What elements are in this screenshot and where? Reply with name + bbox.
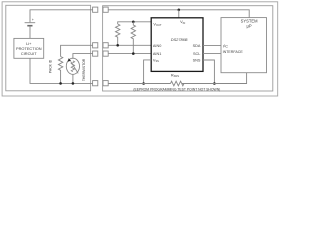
resistor RSNS (171, 81, 184, 86)
wire cell to protection circuit (29, 26, 31, 39)
wire AIN0 (108, 44, 151, 46)
wire SNS (203, 60, 214, 84)
node R2 top (132, 21, 135, 24)
wire PACK+ top rail pack side (30, 10, 93, 22)
node VSS / ground rail (142, 82, 145, 85)
svg-text:SDA: SDA (193, 44, 201, 48)
wire TH terminal to pack ID resistor (61, 45, 93, 56)
node SNS / ground rail (213, 82, 216, 85)
ground rail host side right segment (182, 73, 247, 84)
svg-text:AIN0: AIN0 (153, 44, 161, 48)
svg-text:(EEPROM PROGRAMMING TEST POINT: (EEPROM PROGRAMMING TEST POINT NOT SHOWN… (133, 87, 220, 91)
svg-text:SNS: SNS (193, 59, 201, 63)
pack connector terminal PACK- right (103, 81, 108, 86)
svg-text:CIRCUIT: CIRCUIT (21, 51, 37, 56)
pack connector terminal PACK- left (93, 81, 98, 86)
cell B1 plus plate (25, 22, 36, 24)
wire SDA (203, 44, 221, 46)
wire thermistor to PACK- rail (72, 74, 74, 84)
svg-text:+: + (32, 18, 34, 22)
svg-text:µP: µP (247, 24, 252, 29)
resistor R2 AIN1 bias (131, 22, 135, 54)
svg-text:AIN1: AIN1 (153, 52, 161, 56)
node pack ID / PACK- rail (59, 82, 62, 85)
cell B1 minus plate (27, 25, 32, 27)
svg-text:DS2786B: DS2786B (171, 37, 188, 42)
wire PACK+ top rail host side (108, 10, 249, 18)
IC U1 DS2786 box (151, 18, 203, 72)
system microprocessor box (221, 18, 267, 73)
ground rail host side left segment (108, 83, 170, 85)
svg-text:RSNS: RSNS (171, 73, 179, 78)
svg-text:SCL: SCL (193, 52, 200, 56)
resistor pack ID (58, 57, 62, 84)
wire VIN (178, 10, 180, 18)
thermistor RT (66, 58, 79, 74)
svg-text:I²C: I²C (223, 43, 228, 48)
wire ID terminal to thermistor (73, 54, 93, 59)
pack connector terminal ID left (93, 51, 98, 56)
pack connector terminal PACK+ left (93, 7, 98, 12)
wire protection circuit to PACK- rail (30, 58, 93, 83)
pack connector terminal TH right (103, 43, 108, 48)
pack connector terminal TH left (93, 43, 98, 48)
pack connector terminal PACK+ right (103, 7, 108, 12)
wire VSS (144, 60, 152, 84)
Li+ protection circuit box (14, 38, 44, 58)
battery pack enclosure (6, 5, 91, 91)
pack connector terminal ID right (103, 51, 108, 56)
wire AIN1 (108, 53, 151, 55)
node VIN tap (178, 9, 181, 12)
wire SCL (203, 53, 221, 55)
svg-text:THERMISTOR: THERMISTOR (82, 58, 86, 81)
node R1 bottom (116, 44, 119, 47)
host enclosure (103, 6, 273, 91)
svg-text:PACK ID: PACK ID (48, 59, 52, 73)
resistor R1 AIN0 bias (115, 24, 119, 45)
wire VOUT bias rail (118, 22, 152, 24)
node thermistor / PACK- rail (72, 82, 75, 85)
svg-text:SYSTEM: SYSTEM (241, 18, 258, 23)
figure frame (2, 2, 278, 96)
node R2 bottom (132, 52, 135, 55)
svg-text:INTERFACE: INTERFACE (223, 50, 244, 54)
